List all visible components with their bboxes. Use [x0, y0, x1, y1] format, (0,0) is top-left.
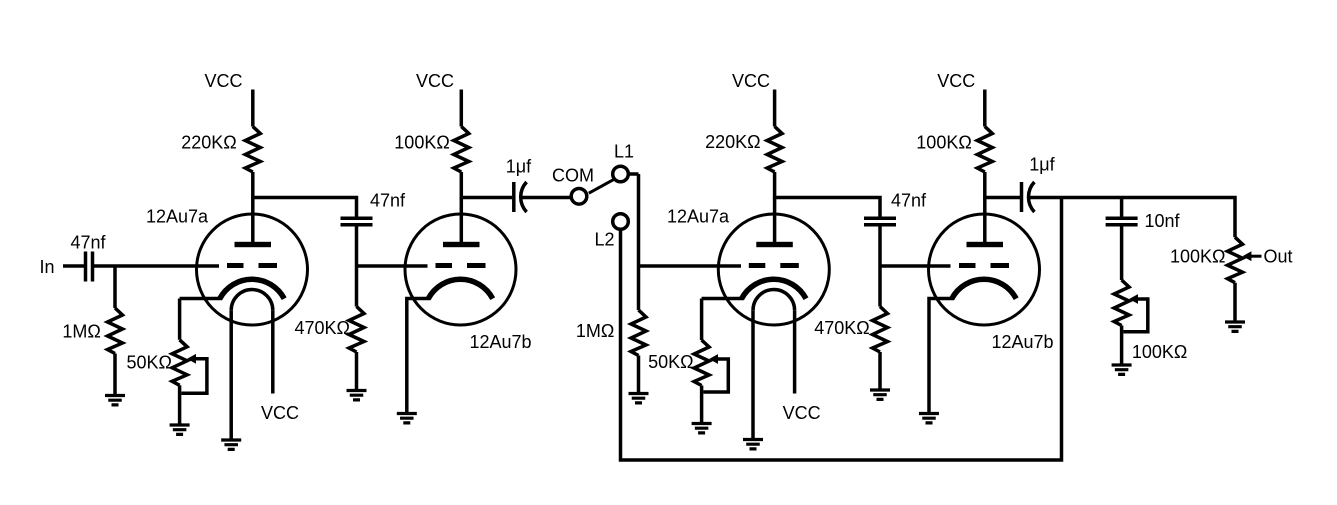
resistor 470K (stage1) [349, 307, 364, 353]
wire VCC to 100K (stage2) [983, 90, 987, 127]
svg-text:VCC: VCC [261, 403, 299, 423]
svg-text:10nf: 10nf [1145, 211, 1181, 231]
svg-text:VCC: VCC [204, 71, 242, 91]
wire VCC to 220K [251, 90, 255, 127]
ground (470K stage1) [347, 391, 367, 400]
wire VCC to 100K [460, 90, 464, 127]
svg-text:L1: L1 [614, 142, 634, 162]
svg-text:50KΩ: 50KΩ [648, 352, 693, 372]
svg-text:100KΩ: 100KΩ [916, 133, 972, 153]
wire 50K to ground (stage2) [700, 386, 704, 423]
switch terminal L1 [613, 166, 629, 182]
wire 1uf to COM [521, 196, 570, 200]
wire wiper loop 50K (stage1) [181, 359, 207, 394]
resistor 1M (stage2) [631, 310, 646, 356]
svg-text:220KΩ: 220KΩ [181, 133, 237, 153]
ground (50K stage2) [692, 424, 712, 433]
switch lever COM-L1 [589, 180, 614, 194]
capacitor 1uf (stage1) [512, 182, 516, 212]
ground (1M stage2) [629, 394, 649, 403]
wire 100K to plate rail U1b [461, 172, 512, 198]
wire 220K to plate rail [253, 172, 357, 217]
svg-text:12Au7b: 12Au7b [469, 332, 531, 352]
wiper arrow 50K (stage1) [187, 354, 196, 364]
wiper arrow output pot [1243, 251, 1252, 261]
wire grid U1b [357, 264, 428, 268]
svg-text:12Au7b: 12Au7b [991, 332, 1053, 352]
wire 1M to ground [113, 354, 117, 395]
wire L1 to riser [629, 172, 639, 176]
resistor 220K (stage1) [245, 127, 260, 173]
wire output rail to out pot [1029, 198, 1235, 238]
triode U2a 12Au7a [718, 198, 829, 439]
svg-text:COM: COM [552, 165, 594, 185]
wire VCC to 220K (stage2) [773, 90, 777, 127]
potentiometer 50K (stage1) [172, 340, 187, 386]
potentiometer 100K (tone) [1114, 280, 1129, 326]
capacitor 10nf [1106, 218, 1138, 225]
svg-text:12Au7a: 12Au7a [667, 207, 730, 227]
wire wiper loop 100K (tone) [1123, 299, 1148, 332]
wire 220K to plate rail (stage2) [775, 172, 880, 217]
svg-text:47nf: 47nf [891, 191, 927, 211]
capacitor 47nf interstage (stage2) [864, 218, 896, 225]
wire input lead [63, 264, 84, 268]
wiper arrow 100K (tone) [1129, 294, 1138, 304]
svg-text:1MΩ: 1MΩ [62, 322, 100, 342]
svg-text:Out: Out [1264, 247, 1293, 267]
triode U1a 12Au7a [197, 198, 308, 439]
wire 470K to ground [355, 352, 359, 389]
wire grid U2b [880, 264, 951, 268]
svg-text:VCC: VCC [783, 403, 821, 423]
wire tone pot to ground [1120, 326, 1124, 364]
wire 100K to plate rail U2b [985, 172, 1020, 198]
capacitor 47nf input [86, 252, 93, 282]
triode U2b 12Au7b [929, 198, 1040, 326]
potentiometer 50K (stage2) [694, 340, 709, 386]
wire L1 riser to grid node and 1M (stage2) [637, 174, 641, 310]
ground (470K stage2) [870, 390, 890, 399]
svg-text:1μf: 1μf [1029, 155, 1055, 175]
wire cathode U1b to ground [407, 299, 431, 413]
wire cathode U2b to ground [929, 299, 954, 413]
wiper arrow 50K (stage2) [709, 354, 718, 364]
switch terminal COM [571, 189, 587, 205]
wire 50K to ground (stage1) [178, 385, 182, 423]
ground (heater U1a) [221, 440, 241, 449]
svg-text:12Au7a: 12Au7a [146, 207, 209, 227]
wire 1M drop [113, 266, 117, 308]
svg-text:100KΩ: 100KΩ [1170, 246, 1226, 266]
wire cathode U1a to pot [180, 299, 222, 340]
svg-text:470KΩ: 470KΩ [814, 318, 870, 338]
ground (cathode U1b) [397, 414, 417, 423]
resistor 100K (stage2) [977, 127, 992, 173]
wire 1M to ground (stage2) [637, 356, 641, 393]
svg-text:VCC: VCC [732, 71, 770, 91]
wire cathode U2a to pot [702, 299, 744, 341]
wire cap to 470K through grid node [355, 226, 359, 306]
svg-text:In: In [39, 257, 54, 277]
wire 470K to ground (stage2) [878, 352, 882, 389]
svg-text:220KΩ: 220KΩ [705, 132, 761, 152]
svg-text:47nf: 47nf [370, 191, 406, 211]
wire output pot to ground [1233, 283, 1237, 321]
ground (1M stage1) [105, 396, 125, 405]
resistor 100K (stage1) [454, 127, 469, 173]
wire 10nf to pot [1120, 226, 1124, 280]
resistor 1M (stage1) [108, 308, 123, 354]
wire L2 drop, bottom feedback rail and riser to output node [621, 198, 1062, 461]
wire input line to grid of U1a [94, 264, 219, 268]
wire cap to 470K through grid node (stage2) [878, 226, 882, 306]
triode U1b 12Au7b [405, 198, 516, 326]
svg-text:47nf: 47nf [70, 233, 106, 253]
svg-text:50KΩ: 50KΩ [127, 353, 172, 373]
ground (tone pot) [1112, 365, 1132, 374]
resistor 470K (stage2) [873, 307, 888, 353]
svg-text:VCC: VCC [937, 71, 975, 91]
potentiometer 100K (output) [1228, 237, 1243, 283]
ground (output pot) [1225, 322, 1245, 331]
svg-text:100KΩ: 100KΩ [1132, 342, 1188, 362]
wire grid U2a [639, 264, 742, 268]
resistor 220K (stage2) [767, 127, 782, 173]
wire wiper to Out [1250, 255, 1262, 258]
capacitor 1uf (stage2) [1020, 182, 1024, 212]
capacitor 47nf interstage (stage1) [341, 218, 373, 225]
switch terminal L2 [613, 214, 629, 230]
svg-text:1μf: 1μf [506, 157, 532, 177]
svg-text:100KΩ: 100KΩ [394, 133, 450, 153]
wire 10nf stub [1120, 198, 1124, 217]
ground (50K stage1) [170, 425, 190, 434]
ground (cathode U2b) [919, 414, 939, 423]
svg-text:VCC: VCC [416, 71, 454, 91]
svg-text:470KΩ: 470KΩ [295, 318, 351, 338]
wire wiper loop 50K (stage2) [703, 359, 728, 392]
ground (heater U2a) [743, 440, 763, 449]
svg-text:1MΩ: 1MΩ [576, 321, 614, 341]
svg-text:L2: L2 [594, 230, 614, 250]
